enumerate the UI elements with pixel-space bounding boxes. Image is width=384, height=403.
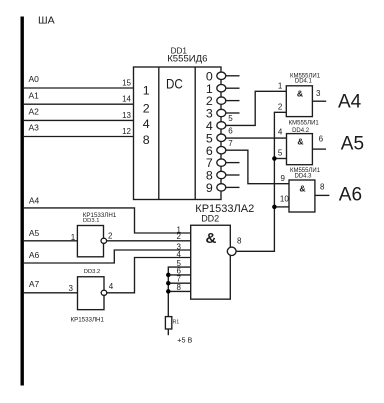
and-gate U DD4.3 КМ555ЛИ1 [289, 168, 321, 212]
wire DD2 pin 5 [168, 267, 190, 317]
svg-text:DD3.2: DD3.2 [84, 269, 100, 275]
svg-text:A6: A6 [29, 250, 40, 260]
junction DD4.3 pin 10 [272, 205, 277, 210]
svg-text:3: 3 [69, 284, 74, 293]
DD1 output 8 bubble [217, 171, 226, 178]
svg-text:1: 1 [143, 84, 150, 98]
and-gate U DD4.2 КМ555ЛИ1 [287, 120, 320, 164]
wire output 8 stub [226, 174, 240, 176]
svg-text:12: 12 [122, 127, 131, 136]
wire DD3.2 output to DD2 pin 4 [107, 258, 191, 293]
svg-text:6: 6 [228, 127, 233, 136]
svg-text:DD4.1: DD4.1 [295, 79, 313, 85]
wire DD2 output to gates [236, 112, 286, 251]
wire A5 to DD3.1 input [24, 240, 78, 242]
wire A0 [24, 87, 134, 89]
DD1 output 9 bubble [217, 184, 226, 191]
wire output 5 to DD4.2 pin 4 [226, 137, 287, 139]
svg-text:2: 2 [108, 232, 113, 241]
wire DD3.1 output to DD2 pin 2 [107, 240, 191, 242]
inverter DD3.2 КР1533ЛН1 [71, 269, 105, 323]
junction pin 7 [166, 281, 171, 286]
svg-text:3: 3 [316, 89, 321, 98]
DD1 output 1 bubble [217, 85, 226, 92]
svg-text:A0: A0 [29, 74, 40, 84]
svg-text:A5: A5 [29, 228, 40, 238]
svg-text:КМ555ЛИ1: КМ555ЛИ1 [289, 120, 320, 126]
wire A3 [24, 136, 134, 138]
svg-text:9: 9 [281, 174, 286, 183]
svg-text:1: 1 [71, 233, 76, 242]
svg-text:7: 7 [228, 139, 233, 148]
svg-text:4: 4 [177, 250, 182, 259]
svg-text:8: 8 [237, 237, 242, 246]
DD1 output 0 bubble [217, 72, 226, 79]
svg-text:9: 9 [206, 181, 213, 195]
DD3.2 output bubble [101, 290, 107, 295]
nand-gate DD2 КР1533ЛА2 [191, 203, 254, 299]
wire output 3 stub [226, 112, 240, 114]
svg-text:6: 6 [319, 135, 324, 144]
resistor R1 [165, 317, 171, 329]
svg-text:КР1533ЛН1: КР1533ЛН1 [71, 316, 105, 323]
wire DD4.2 output [312, 148, 326, 150]
wire resistor to +5V [167, 329, 169, 335]
decoder DD1 К555ИД6 [134, 46, 222, 199]
DD1 output 2 bubble [217, 97, 226, 104]
wire output 1 stub [226, 87, 240, 89]
svg-text:8: 8 [177, 283, 182, 292]
svg-text:R1: R1 [173, 320, 180, 326]
svg-text:A4: A4 [29, 195, 40, 205]
svg-text:1: 1 [278, 81, 283, 90]
wire A2 [24, 119, 134, 121]
wire DD4.3 output [315, 194, 330, 196]
DD3.1 output bubble [101, 238, 107, 243]
wire output 2 stub [226, 100, 240, 102]
junction DD4.2 pin 5 [272, 156, 277, 161]
inverter DD3.1 КР1533ЛН1 [77, 212, 116, 257]
svg-text:4: 4 [109, 282, 114, 291]
svg-text:A3: A3 [29, 123, 40, 133]
svg-text:A4: A4 [338, 92, 362, 113]
svg-text:4: 4 [143, 117, 150, 131]
svg-text:2: 2 [278, 103, 283, 112]
svg-text:&: & [299, 184, 305, 194]
wire A7 to DD3.2 input [24, 292, 78, 294]
svg-text:&: & [206, 230, 217, 247]
svg-text:A2: A2 [29, 107, 40, 117]
junction pin 8 [166, 289, 171, 294]
svg-text:2: 2 [143, 101, 150, 115]
wire output 7 stub [226, 162, 240, 164]
svg-text:A6: A6 [339, 185, 362, 206]
svg-text:DD2: DD2 [201, 214, 219, 224]
svg-text:DD3.1: DD3.1 [83, 218, 99, 224]
svg-text:A5: A5 [341, 133, 364, 154]
wire DD2 pin 8 [168, 290, 190, 292]
wire DD2 pin 6 [168, 274, 190, 276]
svg-text:4: 4 [278, 127, 283, 136]
svg-text:A7: A7 [29, 279, 40, 289]
svg-text:DD4.3: DD4.3 [294, 174, 312, 180]
svg-text:&: & [297, 89, 303, 99]
svg-text:5: 5 [228, 114, 233, 123]
svg-text:8: 8 [320, 183, 325, 192]
svg-text:13: 13 [122, 111, 131, 120]
wire branch to DD4.3 pin 10 [274, 206, 289, 208]
wire output 0 stub [226, 75, 240, 77]
wire branch to DD4.2 pin 5 [274, 158, 286, 160]
wire DD2 pin 7 [168, 282, 190, 284]
DD1 output 7 bubble [217, 159, 226, 166]
svg-text:2: 2 [177, 232, 182, 241]
DD1 output 6 bubble [217, 147, 226, 154]
wire output 4 to DD4.1 pin 1 [226, 91, 286, 125]
svg-text:15: 15 [122, 79, 131, 88]
junction pin 6 [166, 273, 171, 278]
svg-text:&: & [297, 137, 303, 147]
svg-text:+5 В: +5 В [177, 335, 192, 344]
svg-text:8: 8 [143, 133, 150, 147]
bus ША [21, 17, 24, 386]
DD1 output 5 bubble [217, 134, 226, 141]
svg-text:5: 5 [278, 148, 283, 157]
wire output 6 to DD4.3 pin 9 [226, 150, 289, 184]
svg-text:A1: A1 [29, 90, 40, 100]
and-gate U DD4.1 КМ555ЛИ1 [286, 73, 320, 116]
svg-text:К555ИД6: К555ИД6 [167, 54, 207, 65]
svg-text:14: 14 [122, 95, 131, 104]
DD1 output 4 bubble [217, 122, 226, 129]
wire A4 to DD2 pin 1 [24, 208, 191, 233]
wire output 9 stub [226, 186, 240, 188]
svg-text:DC: DC [166, 75, 183, 91]
wire DD4.1 output [312, 100, 326, 102]
svg-text:10: 10 [280, 195, 289, 204]
wire A6 to DD2 pin 3 [24, 250, 191, 263]
wire A1 [24, 103, 134, 105]
DD2 output bubble [227, 247, 236, 255]
svg-text:ША: ША [38, 15, 55, 27]
DD1 output 3 bubble [217, 109, 226, 116]
